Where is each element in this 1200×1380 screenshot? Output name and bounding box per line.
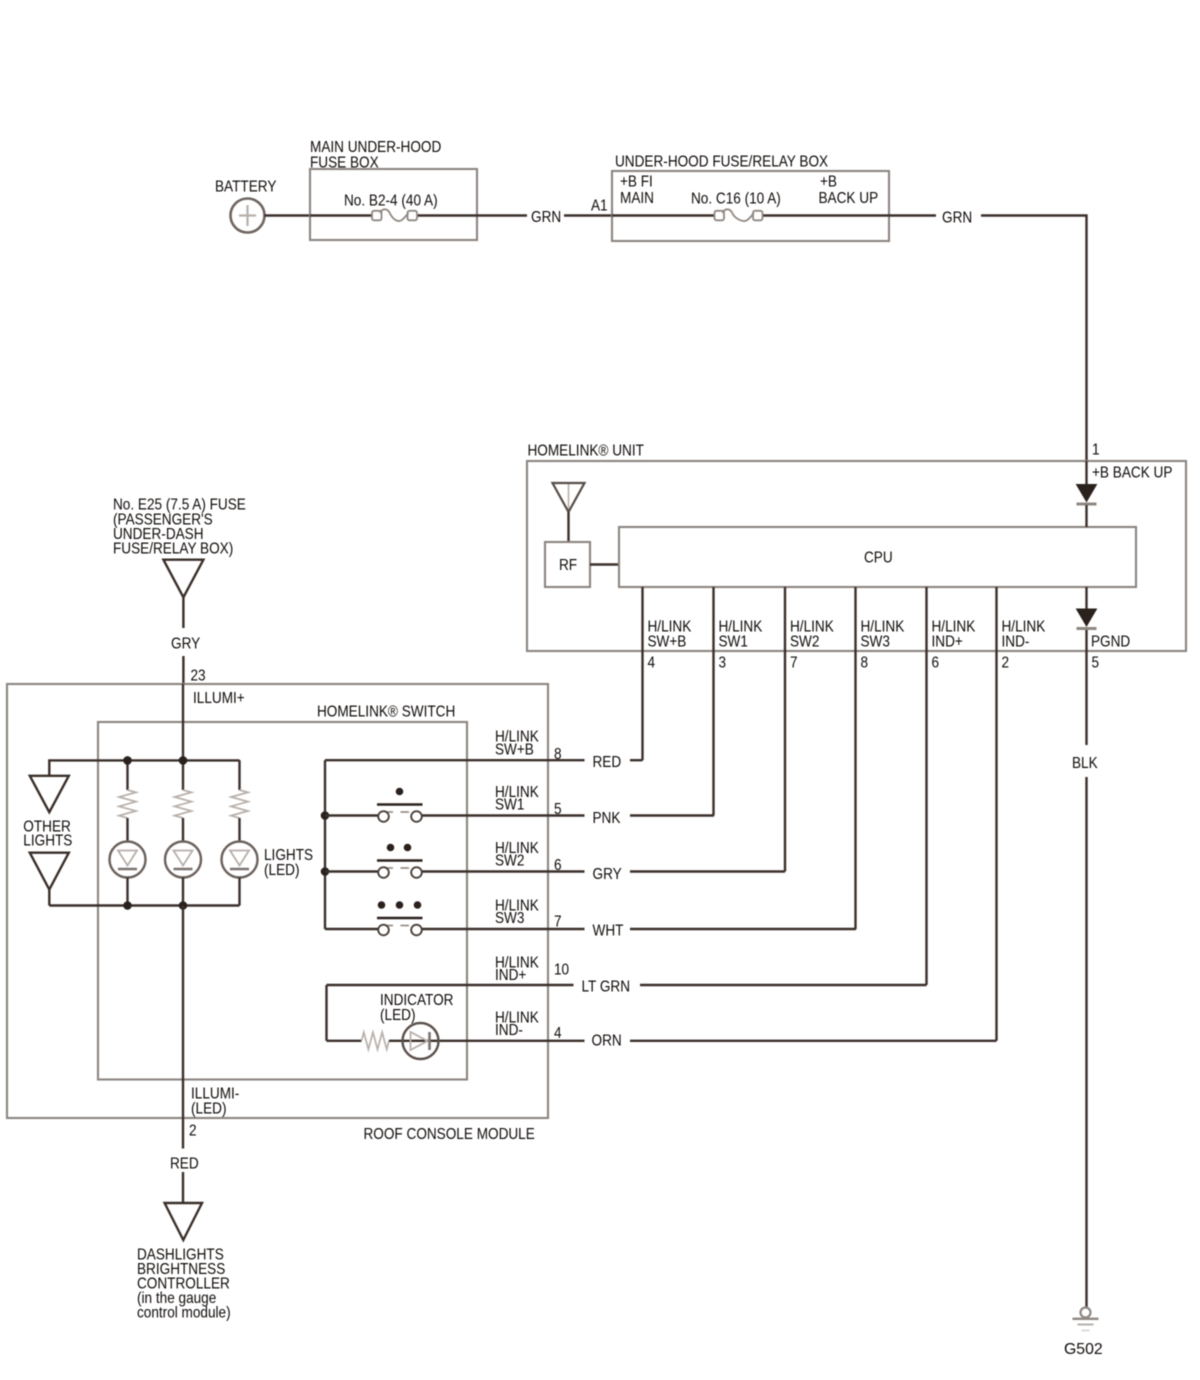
svg-text:10: 10 [554, 962, 569, 979]
svg-text:4: 4 [648, 655, 656, 672]
svg-text:SW2: SW2 [495, 853, 524, 870]
wire GRN to under-hood fuse/relay box [477, 214, 527, 216]
svg-text:BLK: BLK [1072, 755, 1098, 772]
svg-text:IND-: IND- [1002, 634, 1030, 651]
svg-text:23: 23 [191, 668, 206, 685]
svg-text:6: 6 [932, 655, 940, 672]
svg-text:5: 5 [554, 801, 562, 818]
svg-text:control module): control module) [137, 1305, 231, 1322]
svg-text:6: 6 [554, 857, 562, 874]
pin 1 +B BACK UP [1092, 442, 1100, 459]
row H/LINK SW+B wire RED [325, 759, 585, 761]
svg-text:No. B2-4 (40 A): No. B2-4 (40 A) [344, 193, 438, 210]
CPU pin wire H/LINK SW3 (pin 8) [854, 587, 856, 929]
svg-text:FUSE/RELAY BOX): FUSE/RELAY BOX) [113, 541, 233, 558]
svg-text:(LED): (LED) [264, 862, 300, 879]
wire GRY to roof console module pin 23 [182, 597, 184, 628]
lights bottom rail [49, 904, 239, 906]
CPU pin wire H/LINK IND- (pin 2) [995, 587, 997, 1041]
svg-text:IND+: IND+ [495, 967, 526, 984]
svg-text:ILLUMI+: ILLUMI+ [193, 690, 245, 707]
indicator resistor [327, 1040, 362, 1042]
fuse No. C16 (10 A) [691, 191, 781, 208]
svg-text:SW+B: SW+B [495, 741, 534, 758]
junction dots lights rails [123, 756, 132, 765]
svg-text:SW1: SW1 [495, 797, 524, 814]
dashlights brightness controller connector [165, 1203, 202, 1240]
svg-text:SW3: SW3 [495, 910, 524, 927]
svg-text:PNK: PNK [593, 810, 621, 827]
HomeLink unit box [527, 461, 1186, 651]
CPU pin wire H/LINK SW+B (pin 4) [641, 587, 643, 760]
svg-text:MAIN: MAIN [620, 190, 654, 207]
diode D1 +B backup [1085, 461, 1087, 485]
other lights connector down [30, 853, 69, 890]
svg-text:GRN: GRN [531, 209, 561, 226]
wire BLK PGND to ground [1085, 651, 1087, 745]
svg-text:LT GRN: LT GRN [582, 979, 631, 996]
switch SW1 [377, 803, 423, 806]
svg-text:4: 4 [554, 1025, 562, 1042]
svg-text:A1: A1 [591, 198, 608, 215]
svg-text:2: 2 [189, 1123, 197, 1140]
ground G502 [1081, 1308, 1091, 1318]
CPU pin wire H/LINK SW1 (pin 3) [712, 587, 714, 816]
switch SW3 [377, 917, 423, 920]
svg-text:CPU: CPU [864, 550, 893, 567]
svg-text:IND-: IND- [495, 1022, 523, 1039]
svg-text:(LED): (LED) [380, 1007, 416, 1024]
wire RF to CPU [590, 563, 619, 565]
HomeLink switch box [98, 722, 467, 1080]
diode D2 PGND [1085, 587, 1087, 609]
lights top rail [49, 760, 239, 775]
wire GRN to HomeLink unit pin 1 [889, 214, 936, 216]
switch SW2 [377, 859, 423, 862]
roof console module box [7, 684, 548, 1118]
svg-text:+B FI: +B FI [620, 174, 653, 191]
under-hood fuse/relay box [612, 171, 889, 241]
switch bus [324, 760, 326, 929]
wire ILLUMI- to pin 2 [182, 906, 184, 1119]
svg-text:8: 8 [861, 655, 869, 672]
svg-text:7: 7 [554, 914, 562, 931]
svg-text:GRY: GRY [171, 636, 200, 653]
svg-text:SW1: SW1 [719, 634, 748, 651]
svg-text:PGND: PGND [1091, 634, 1130, 651]
svg-text:ROOF CONSOLE MODULE: ROOF CONSOLE MODULE [364, 1126, 535, 1143]
svg-text:IND+: IND+ [932, 634, 963, 651]
svg-text:5: 5 [1092, 655, 1100, 672]
svg-text:GRY: GRY [593, 866, 622, 883]
svg-text:HOMELINK® UNIT: HOMELINK® UNIT [528, 443, 644, 460]
svg-text:7: 7 [790, 655, 798, 672]
svg-text:8: 8 [554, 746, 562, 763]
svg-text:BATTERY: BATTERY [215, 179, 276, 196]
svg-text:SW+B: SW+B [648, 634, 687, 651]
svg-text:No. C16 (10 A): No. C16 (10 A) [691, 191, 781, 208]
svg-text:UNDER-HOOD FUSE/RELAY BOX: UNDER-HOOD FUSE/RELAY BOX [615, 154, 828, 171]
row H/LINK IND- wire ORN [495, 1009, 539, 1026]
RF module U-RF [545, 542, 590, 587]
svg-text:RED: RED [170, 1156, 199, 1173]
svg-text:LIGHTS: LIGHTS [23, 833, 72, 850]
wire battery to main fuse box [265, 214, 311, 216]
wire indicator feed [325, 985, 327, 1041]
svg-text:RF: RF [559, 557, 577, 574]
CPU box [619, 527, 1136, 587]
svg-text:RED: RED [593, 754, 622, 771]
svg-text:+B: +B [820, 174, 837, 191]
svg-text:SW3: SW3 [861, 634, 890, 651]
antenna [568, 484, 570, 511]
svg-text:1: 1 [1092, 442, 1100, 459]
wire RED to dashlights controller [182, 1118, 184, 1149]
other lights connector up [30, 776, 69, 812]
illumination LED branch 3: resistor + LED [238, 760, 240, 790]
CPU pin wire H/LINK IND+ (pin 6) [925, 587, 927, 985]
indicator LED D3 [389, 1040, 585, 1042]
svg-text:SW2: SW2 [790, 634, 819, 651]
svg-text:BACK UP: BACK UP [819, 190, 879, 207]
wire ILLUMI+ bus [182, 684, 184, 760]
CPU pin wire H/LINK SW2 (pin 7) [784, 587, 786, 872]
svg-text:2: 2 [1002, 655, 1010, 672]
row H/LINK IND+ wire LT GRN [327, 984, 574, 986]
svg-text:WHT: WHT [593, 923, 624, 940]
svg-text:3: 3 [719, 655, 727, 672]
fuse No. B2-4 (40 A) [344, 193, 438, 210]
battery B1 [231, 199, 265, 233]
illumination LED branch 1: resistor + LED [126, 760, 128, 790]
svg-text:G502: G502 [1064, 1341, 1103, 1358]
svg-text:ORN: ORN [592, 1033, 622, 1050]
svg-text:GRN: GRN [942, 210, 972, 227]
svg-text:(LED): (LED) [191, 1100, 227, 1117]
svg-text:HOMELINK® SWITCH: HOMELINK® SWITCH [317, 704, 455, 721]
fuse No. E25 connector [113, 497, 246, 514]
svg-text:+B BACK UP: +B BACK UP [1092, 465, 1172, 482]
main under-hood fuse box [310, 169, 477, 240]
svg-text:FUSE BOX: FUSE BOX [310, 155, 379, 172]
illumination LED branch 2: resistor + LED [182, 760, 184, 790]
